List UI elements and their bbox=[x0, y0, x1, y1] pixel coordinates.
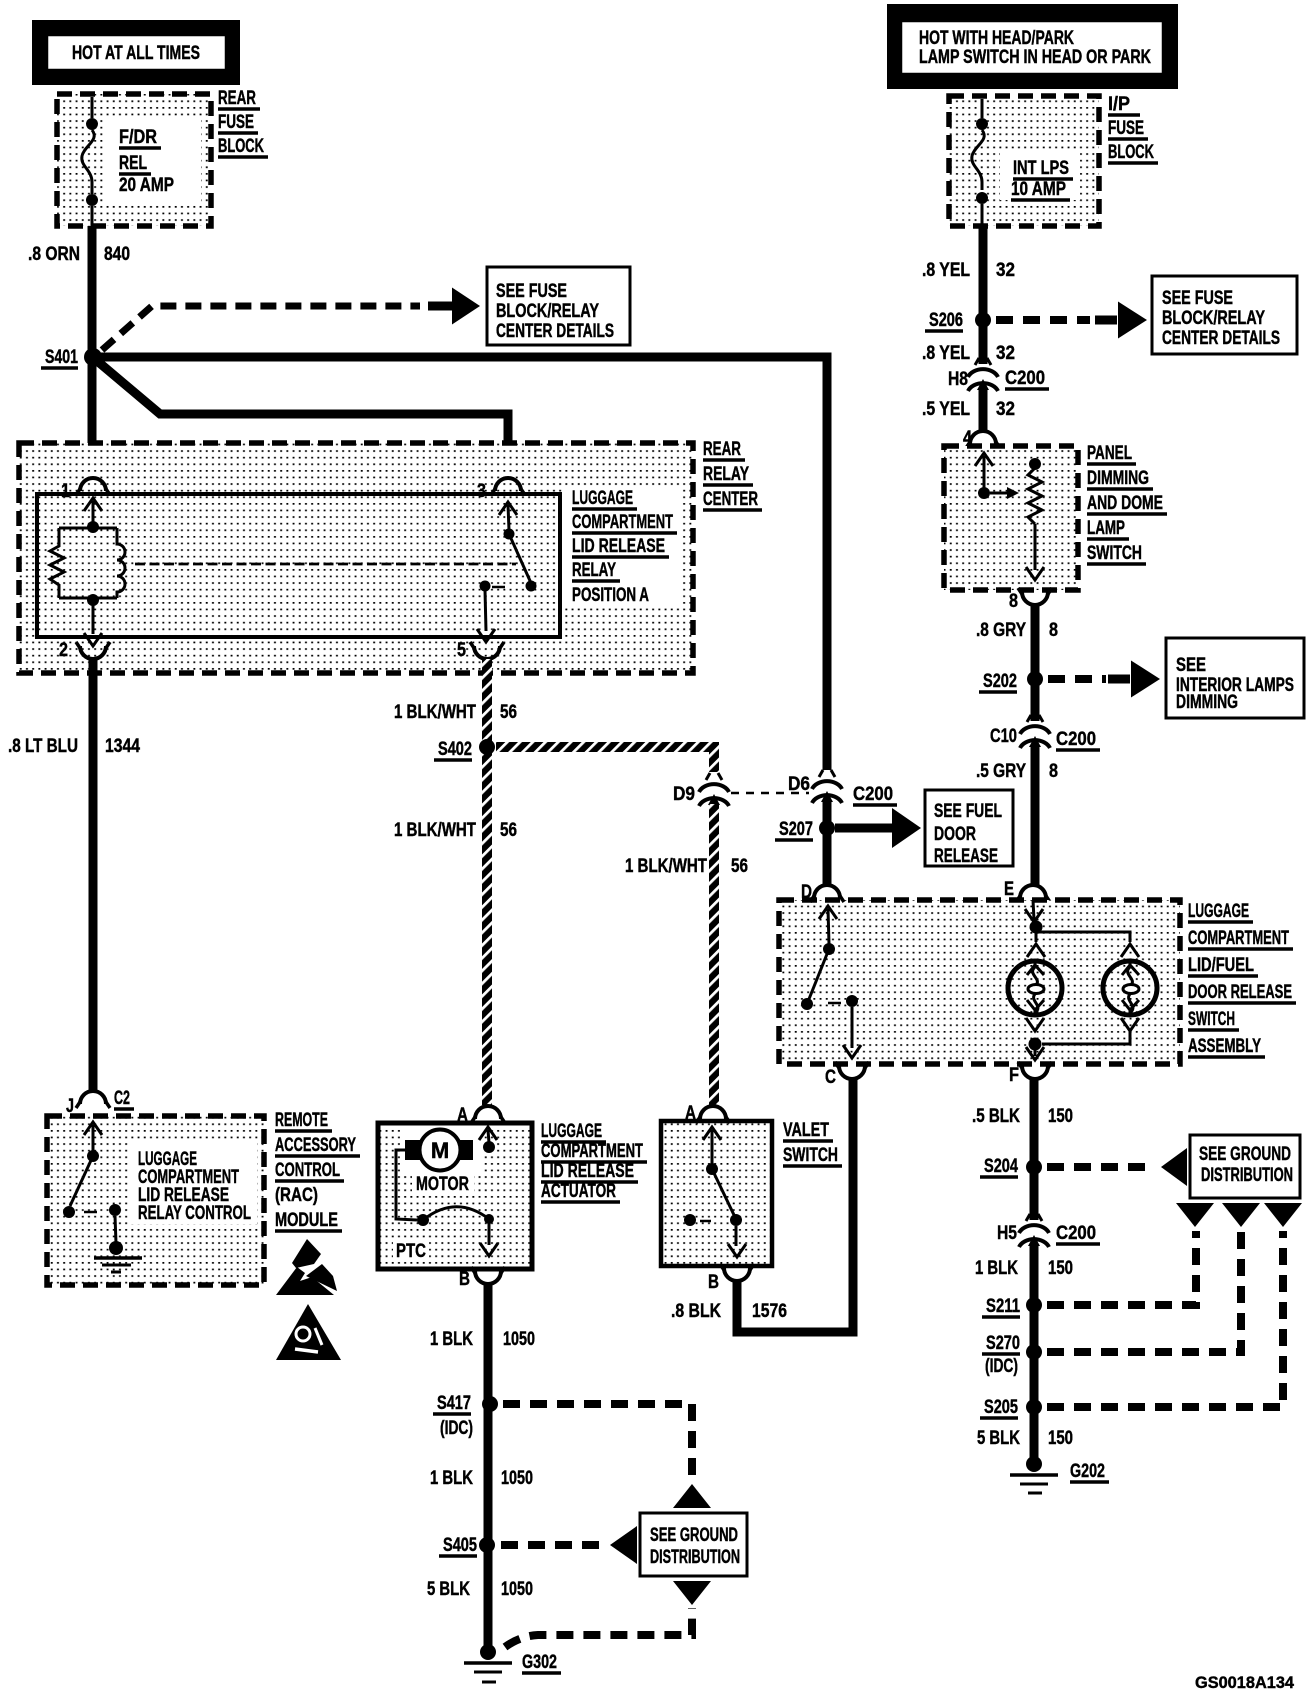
splice S207 label bbox=[775, 819, 813, 840]
arrow down t1 bbox=[1176, 1203, 1214, 1227]
switch assembly box bbox=[779, 900, 1180, 1064]
switch assembly pin E bbox=[1004, 879, 1050, 902]
wire valet B to C .8 BLK 1576 bbox=[737, 1079, 853, 1332]
box SEE INTERIOR LAMPS DIMMING bbox=[1166, 638, 1304, 718]
svg-text:H8: H8 bbox=[948, 369, 968, 390]
svg-text:S401: S401 bbox=[45, 347, 78, 368]
valet switch box bbox=[661, 1121, 772, 1266]
splice S270 label bbox=[982, 1333, 1020, 1377]
splice S402 bbox=[479, 739, 495, 755]
svg-text:SEE: SEE bbox=[1176, 655, 1206, 676]
splice S417 label bbox=[433, 1393, 473, 1439]
label 1 BLK b bbox=[430, 1468, 473, 1489]
wire .8 ORN 840 bbox=[88, 226, 97, 479]
svg-text:150: 150 bbox=[1048, 1106, 1073, 1127]
label 8 b bbox=[1049, 761, 1058, 782]
label 1 BLK right bbox=[975, 1258, 1018, 1279]
svg-text:ACTUATOR: ACTUATOR bbox=[541, 1181, 616, 1202]
wire actuator B to G302 bbox=[484, 1284, 493, 1652]
actuator motor bbox=[400, 1127, 497, 1195]
svg-text:150: 150 bbox=[1048, 1428, 1073, 1449]
label 5 BLK bbox=[427, 1579, 470, 1600]
svg-text:S211: S211 bbox=[986, 1296, 1020, 1317]
svg-text:SEE GROUND: SEE GROUND bbox=[1199, 1144, 1291, 1165]
svg-text:32: 32 bbox=[996, 399, 1015, 420]
label G202 bbox=[1070, 1461, 1109, 1482]
splice S204 label bbox=[980, 1156, 1018, 1177]
splice S202 bbox=[1027, 671, 1043, 687]
label 1 BLK/WHT upper bbox=[394, 702, 476, 723]
relay pin 1 bbox=[61, 478, 110, 502]
svg-text:S417: S417 bbox=[437, 1393, 471, 1414]
svg-text:FUSE: FUSE bbox=[1108, 118, 1144, 139]
svg-text:DIMMING: DIMMING bbox=[1087, 468, 1149, 489]
relay pin 2 bbox=[59, 640, 110, 661]
splice S405 label bbox=[439, 1535, 477, 1556]
connector pin J bbox=[66, 1091, 110, 1117]
rear fuse block box bbox=[57, 94, 211, 226]
svg-text:A: A bbox=[457, 1105, 468, 1126]
label .5 BLK bbox=[972, 1106, 1020, 1127]
svg-text:REAR: REAR bbox=[218, 88, 256, 109]
ground G202 bbox=[1010, 1456, 1058, 1493]
svg-text:C200: C200 bbox=[1005, 368, 1045, 389]
svg-text:.8 YEL: .8 YEL bbox=[922, 343, 970, 364]
arrow down t2 bbox=[1222, 1203, 1260, 1227]
svg-text:1050: 1050 bbox=[501, 1579, 533, 1600]
svg-text:S204: S204 bbox=[984, 1156, 1018, 1177]
svg-text:C: C bbox=[825, 1067, 836, 1088]
connector H5 C200 bbox=[997, 1214, 1100, 1247]
svg-text:INT LPS: INT LPS bbox=[1013, 158, 1069, 179]
svg-text:AND DOME: AND DOME bbox=[1087, 493, 1163, 514]
splice S405 bbox=[479, 1537, 495, 1553]
actuator pin A bbox=[457, 1105, 505, 1126]
lamp return wiring bbox=[1026, 1018, 1139, 1060]
svg-text:ACCESSORY: ACCESSORY bbox=[275, 1135, 356, 1156]
svg-text:COMPARTMENT: COMPARTMENT bbox=[541, 1141, 643, 1162]
I/P fuse block box bbox=[949, 96, 1099, 226]
svg-text:I/P: I/P bbox=[1108, 94, 1130, 115]
svg-text:G302: G302 bbox=[522, 1652, 557, 1673]
svg-text:.8 YEL: .8 YEL bbox=[922, 260, 970, 281]
label .8 YEL lower bbox=[922, 343, 970, 364]
svg-text:LUGGAGE: LUGGAGE bbox=[1188, 901, 1249, 922]
svg-text:LUGGAGE: LUGGAGE bbox=[541, 1121, 602, 1142]
svg-text:.5 YEL: .5 YEL bbox=[922, 399, 970, 420]
connector C10 C200 bbox=[990, 715, 1100, 750]
dashed wire S405 to ground distribution bbox=[501, 1541, 600, 1549]
svg-text:VALET: VALET bbox=[783, 1120, 829, 1141]
power label HOT AT ALL TIMES bbox=[32, 20, 240, 85]
svg-text:5 BLK: 5 BLK bbox=[427, 1579, 470, 1600]
svg-text:G202: G202 bbox=[1070, 1461, 1105, 1482]
splice S207 bbox=[819, 820, 835, 836]
svg-text:FUSE: FUSE bbox=[218, 112, 254, 133]
svg-text:DIMMING: DIMMING bbox=[1176, 692, 1238, 713]
svg-text:1 BLK: 1 BLK bbox=[975, 1258, 1018, 1279]
switch assembly pin F bbox=[1009, 1062, 1052, 1086]
wire .8 GRY 8 bbox=[1031, 605, 1040, 886]
svg-text:BLOCK/RELAY: BLOCK/RELAY bbox=[1162, 308, 1265, 329]
RAC relay control switch bbox=[63, 1122, 123, 1255]
svg-text:REL: REL bbox=[119, 153, 147, 174]
svg-text:LID/FUEL: LID/FUEL bbox=[1188, 955, 1254, 976]
svg-text:LID RELEASE: LID RELEASE bbox=[572, 536, 665, 557]
svg-text:CENTER DETAILS: CENTER DETAILS bbox=[496, 321, 614, 342]
splice S205 label bbox=[980, 1397, 1018, 1418]
svg-text:CONTROL: CONTROL bbox=[275, 1160, 340, 1181]
svg-text:10 AMP: 10 AMP bbox=[1011, 179, 1066, 200]
box SEE GROUND DISTRIBUTION right bbox=[1190, 1135, 1300, 1198]
svg-text:C200: C200 bbox=[853, 784, 893, 805]
box SEE FUSE BLOCK/RELAY CENTER DETAILS right bbox=[1152, 276, 1297, 354]
svg-text:RELAY: RELAY bbox=[572, 560, 616, 581]
figure number GS0018A134 bbox=[1195, 1673, 1295, 1692]
wire D9 to valet switch A bbox=[709, 804, 719, 1105]
label C2 bbox=[114, 1088, 134, 1109]
label LUGGAGE COMPARTMENT LID/FUEL DOOR RELEASE SWITCH ASSEMBLY bbox=[1188, 901, 1296, 1057]
svg-text:MOTOR: MOTOR bbox=[416, 1174, 469, 1195]
panel dimming box bbox=[944, 446, 1078, 590]
svg-text:(RAC): (RAC) bbox=[275, 1185, 318, 1206]
relay pin 3 bbox=[477, 478, 525, 502]
relay inner box bbox=[37, 494, 560, 637]
svg-text:1 BLK: 1 BLK bbox=[430, 1329, 473, 1350]
svg-text:1 BLK/WHT: 1 BLK/WHT bbox=[394, 820, 476, 841]
label .8 BLK bbox=[671, 1301, 721, 1322]
box SEE GROUND DISTRIBUTION middle bbox=[640, 1513, 747, 1576]
label LUGGAGE COMPARTMENT LID RELEASE RELAY CONTROL bbox=[138, 1149, 251, 1224]
switch assembly pin D bbox=[801, 882, 844, 903]
label 8 a bbox=[1049, 620, 1058, 641]
wire S401 to relay pin 3 bbox=[96, 360, 508, 477]
splice S206 bbox=[975, 312, 991, 328]
svg-text:MODULE: MODULE bbox=[275, 1210, 338, 1231]
relay switch contacts bbox=[477, 502, 537, 642]
svg-text:1576: 1576 bbox=[752, 1301, 787, 1322]
svg-text:S270: S270 bbox=[986, 1333, 1020, 1354]
svg-text:CENTER DETAILS: CENTER DETAILS bbox=[1162, 328, 1280, 349]
dashed wire S204 bbox=[1047, 1163, 1150, 1171]
dashed wire S205 bbox=[1047, 1231, 1283, 1407]
label LUGGAGE COMPARTMENT LID RELEASE RELAY POSITION A bbox=[572, 488, 677, 606]
svg-text:RELAY: RELAY bbox=[703, 464, 749, 485]
dashed wire S270 bbox=[1047, 1231, 1241, 1352]
label G302 bbox=[522, 1652, 561, 1673]
svg-text:C10: C10 bbox=[990, 726, 1017, 747]
RAC internal ground bbox=[94, 1258, 142, 1272]
svg-text:SEE GROUND: SEE GROUND bbox=[650, 1525, 738, 1546]
svg-text:POSITION A: POSITION A bbox=[572, 585, 649, 606]
label 150 a bbox=[1048, 1106, 1073, 1127]
svg-text:S206: S206 bbox=[929, 310, 963, 331]
actuator box bbox=[378, 1123, 532, 1269]
lamp 2 bbox=[1103, 961, 1157, 1015]
svg-text:SWITCH: SWITCH bbox=[783, 1145, 838, 1166]
svg-text:1050: 1050 bbox=[501, 1468, 533, 1489]
fuse F/DR REL 20 AMP bbox=[82, 97, 174, 226]
svg-text:8: 8 bbox=[1009, 591, 1018, 612]
svg-text:840: 840 bbox=[104, 244, 130, 265]
svg-text:2: 2 bbox=[59, 640, 68, 661]
svg-text:.8 ORN: .8 ORN bbox=[28, 244, 80, 265]
label 1050 b bbox=[501, 1468, 533, 1489]
svg-text:SEE FUSE: SEE FUSE bbox=[1162, 288, 1233, 309]
connector H8 C200 bbox=[948, 358, 1049, 391]
splice S202 label bbox=[979, 671, 1017, 692]
svg-text:S405: S405 bbox=[443, 1535, 477, 1556]
panel switch pin 4 bbox=[963, 428, 1000, 449]
arrow to fuse block details bbox=[452, 288, 480, 325]
lamp 1 bbox=[1008, 961, 1062, 1015]
connector D9 bbox=[673, 773, 729, 806]
svg-text:C200: C200 bbox=[1056, 729, 1096, 750]
svg-text:BLOCK/RELAY: BLOCK/RELAY bbox=[496, 301, 599, 322]
svg-text:M: M bbox=[431, 1138, 449, 1163]
svg-text:LUGGAGE: LUGGAGE bbox=[572, 488, 633, 509]
svg-text:CENTER: CENTER bbox=[703, 489, 758, 510]
svg-text:D6: D6 bbox=[788, 774, 810, 795]
svg-text:3: 3 bbox=[477, 481, 486, 502]
label 1576 bbox=[752, 1301, 787, 1322]
label I/P FUSE BLOCK bbox=[1108, 94, 1158, 163]
wire S401 to D6 bbox=[97, 357, 827, 770]
svg-text:1: 1 bbox=[61, 481, 70, 502]
label 1 BLK a bbox=[430, 1329, 473, 1350]
box SEE FUEL DOOR RELEASE bbox=[925, 790, 1013, 867]
svg-text:D9: D9 bbox=[673, 784, 695, 805]
ESD handling symbol bbox=[276, 1304, 341, 1360]
svg-text:S205: S205 bbox=[984, 1397, 1018, 1418]
svg-text:5: 5 bbox=[457, 640, 466, 661]
svg-text:S402: S402 bbox=[438, 739, 472, 760]
dashed wire to fuse block details bbox=[102, 306, 453, 350]
dashed line D9 to D6 bbox=[731, 792, 809, 795]
label .8 YEL upper bbox=[922, 260, 970, 281]
svg-text:REAR: REAR bbox=[703, 439, 741, 460]
svg-text:GS0018A134: GS0018A134 bbox=[1195, 1673, 1295, 1692]
label .5 YEL bbox=[922, 399, 970, 420]
svg-text:1344: 1344 bbox=[105, 736, 140, 757]
svg-text:COMPARTMENT: COMPARTMENT bbox=[572, 512, 673, 533]
lamp feed wiring bbox=[1025, 900, 1139, 957]
svg-text:56: 56 bbox=[500, 702, 517, 723]
svg-text:LID RELEASE: LID RELEASE bbox=[541, 1161, 634, 1182]
label 56 upper bbox=[500, 702, 517, 723]
svg-text:(IDC): (IDC) bbox=[440, 1418, 473, 1439]
dashed arrow S206 bbox=[996, 316, 1117, 324]
splice S270 bbox=[1026, 1344, 1042, 1360]
svg-text:32: 32 bbox=[996, 343, 1015, 364]
svg-text:DISTRIBUTION: DISTRIBUTION bbox=[650, 1547, 740, 1568]
label 5 BLK right bbox=[977, 1428, 1020, 1449]
valet pin B bbox=[708, 1264, 754, 1293]
svg-text:1 BLK/WHT: 1 BLK/WHT bbox=[625, 856, 707, 877]
relay coil bbox=[50, 498, 125, 646]
label 840 bbox=[104, 244, 130, 265]
label 150 c bbox=[1048, 1428, 1073, 1449]
ESD sensitivity symbol bbox=[276, 1239, 337, 1295]
svg-text:C200: C200 bbox=[1056, 1223, 1096, 1244]
svg-text:8: 8 bbox=[1049, 761, 1058, 782]
svg-text:F/DR: F/DR bbox=[119, 127, 157, 148]
dashed wire S417 to ground distribution bbox=[503, 1404, 692, 1478]
svg-text:SWITCH: SWITCH bbox=[1087, 543, 1142, 564]
valet pin A bbox=[685, 1103, 730, 1124]
svg-text:1 BLK: 1 BLK bbox=[430, 1468, 473, 1489]
wire .8 YEL 32 upper bbox=[979, 226, 988, 431]
fuse INT LPS 10 AMP bbox=[972, 99, 1073, 226]
arrow down t3 bbox=[1264, 1203, 1302, 1227]
valet switch contacts bbox=[684, 1127, 746, 1257]
svg-text:B: B bbox=[459, 1269, 470, 1290]
svg-text:PANEL: PANEL bbox=[1087, 443, 1132, 464]
svg-text:F: F bbox=[1009, 1065, 1019, 1086]
arrow left at S204 bbox=[1161, 1148, 1187, 1186]
svg-text:1050: 1050 bbox=[503, 1329, 535, 1350]
svg-text:RELEASE: RELEASE bbox=[934, 846, 998, 867]
wire .8 LT BLU 1344 bbox=[89, 659, 98, 1092]
label REAR FUSE BLOCK bbox=[218, 88, 268, 157]
svg-text:8: 8 bbox=[1049, 620, 1058, 641]
label 1344 bbox=[105, 736, 140, 757]
wire 1 BLK/WHT pin5 to actuator bbox=[482, 659, 492, 1105]
rear relay center box bbox=[19, 443, 693, 673]
label 150 b bbox=[1048, 1258, 1073, 1279]
svg-text:ASSEMBLY: ASSEMBLY bbox=[1188, 1036, 1261, 1057]
arrow left at S405 bbox=[610, 1526, 637, 1564]
connector D6 bbox=[788, 770, 842, 803]
arrow down below ground distribution box bbox=[673, 1581, 711, 1605]
label 32 upper a bbox=[996, 260, 1015, 281]
svg-text:BLOCK: BLOCK bbox=[218, 136, 264, 157]
arrow up to ground distribution box bbox=[673, 1484, 711, 1508]
label LUGGAGE COMPARTMENT LID RELEASE ACTUATOR bbox=[541, 1121, 647, 1202]
relay actuation dash-dot link bbox=[135, 563, 516, 566]
wire D6 to switch assembly D bbox=[823, 801, 832, 885]
svg-text:SEE FUSE: SEE FUSE bbox=[496, 281, 567, 302]
svg-text:56: 56 bbox=[731, 856, 748, 877]
svg-text:A: A bbox=[685, 1103, 696, 1124]
svg-text:SWITCH: SWITCH bbox=[1188, 1009, 1235, 1030]
svg-text:20 AMP: 20 AMP bbox=[119, 175, 174, 196]
splice S401 bbox=[84, 348, 102, 366]
arrowhead S202 bbox=[1131, 661, 1160, 698]
label 1050 c bbox=[501, 1579, 533, 1600]
dashed arrow S202 bbox=[1048, 675, 1130, 683]
label C200 at D6 bbox=[853, 784, 897, 805]
box SEE FUSE BLOCK/RELAY CENTER DETAILS bbox=[487, 267, 630, 345]
switch assembly lid release contacts bbox=[801, 906, 861, 1058]
svg-text:150: 150 bbox=[1048, 1258, 1073, 1279]
switch assembly pin C bbox=[825, 1062, 869, 1088]
actuator pin B bbox=[459, 1267, 505, 1290]
svg-text:56: 56 bbox=[500, 820, 517, 841]
splice S402 label bbox=[434, 739, 472, 760]
label .8 GRY bbox=[976, 620, 1026, 641]
panel switch pin 8 bbox=[1009, 588, 1052, 612]
label REAR RELAY CENTER bbox=[703, 439, 762, 510]
label 32 c bbox=[996, 399, 1015, 420]
svg-text:RELAY CONTROL: RELAY CONTROL bbox=[138, 1203, 251, 1224]
label 1 BLK/WHT valet bbox=[625, 856, 707, 877]
svg-text:D: D bbox=[801, 882, 812, 903]
svg-text:H5: H5 bbox=[997, 1223, 1017, 1244]
svg-text:.8 GRY: .8 GRY bbox=[976, 620, 1026, 641]
svg-text:.8 LT BLU: .8 LT BLU bbox=[8, 736, 78, 757]
svg-text:B: B bbox=[708, 1272, 719, 1293]
panel dimming rheostat bbox=[975, 453, 1044, 580]
ground G302 bbox=[464, 1644, 512, 1682]
svg-text:HOT WITH HEAD/PARK: HOT WITH HEAD/PARK bbox=[919, 28, 1074, 49]
label 32 b bbox=[996, 343, 1015, 364]
label 56 lower bbox=[500, 820, 517, 841]
actuator PTC element bbox=[393, 1150, 498, 1262]
svg-text:COMPARTMENT: COMPARTMENT bbox=[1188, 928, 1289, 949]
svg-text:BLOCK: BLOCK bbox=[1108, 142, 1154, 163]
label PANEL DIMMING AND DOME LAMP SWITCH bbox=[1087, 443, 1167, 564]
label VALET SWITCH bbox=[783, 1120, 842, 1166]
svg-text:SEE FUEL: SEE FUEL bbox=[934, 801, 1002, 822]
arrowhead S206 bbox=[1118, 302, 1147, 339]
dashed wire G302 to ground distribution bbox=[505, 1608, 692, 1647]
svg-text:.5 GRY: .5 GRY bbox=[976, 761, 1026, 782]
svg-text:DOOR RELEASE: DOOR RELEASE bbox=[1188, 982, 1292, 1003]
label .8 ORN bbox=[28, 244, 80, 265]
svg-text:HOT AT ALL TIMES: HOT AT ALL TIMES bbox=[72, 43, 200, 64]
splice S204 bbox=[1026, 1159, 1042, 1175]
svg-text:LAMP SWITCH IN HEAD OR PARK: LAMP SWITCH IN HEAD OR PARK bbox=[919, 47, 1151, 68]
svg-text:LAMP: LAMP bbox=[1087, 518, 1125, 539]
label REMOTE ACCESSORY CONTROL (RAC) MODULE bbox=[275, 1110, 360, 1231]
svg-text:E: E bbox=[1004, 879, 1014, 900]
splice S417 bbox=[482, 1396, 498, 1412]
relay pin 5 bbox=[457, 640, 504, 661]
svg-text:DISTRIBUTION: DISTRIBUTION bbox=[1201, 1165, 1293, 1186]
svg-text:(IDC): (IDC) bbox=[985, 1356, 1018, 1377]
splice S211 label bbox=[982, 1296, 1020, 1317]
label 1 BLK/WHT lower bbox=[394, 820, 476, 841]
svg-text:PTC: PTC bbox=[396, 1241, 426, 1262]
wire F to G202 bbox=[1030, 1079, 1039, 1462]
svg-text:S202: S202 bbox=[983, 671, 1017, 692]
svg-text:REMOTE: REMOTE bbox=[275, 1110, 328, 1131]
dashed wire S211 bbox=[1047, 1231, 1196, 1305]
label 56 valet bbox=[731, 856, 748, 877]
svg-text:.8 BLK: .8 BLK bbox=[671, 1301, 721, 1322]
label .5 GRY bbox=[976, 761, 1026, 782]
arrow to fuel door release bbox=[835, 808, 921, 848]
svg-text:.5 BLK: .5 BLK bbox=[972, 1106, 1020, 1127]
RAC module box bbox=[47, 1116, 264, 1285]
svg-text:1 BLK/WHT: 1 BLK/WHT bbox=[394, 702, 476, 723]
wire S402 to D9 bbox=[496, 747, 714, 772]
splice S401 label bbox=[41, 347, 78, 368]
splice S206 label bbox=[925, 310, 963, 331]
label 1050 a bbox=[503, 1329, 535, 1350]
label .8 LT BLU bbox=[8, 736, 78, 757]
svg-text:32: 32 bbox=[996, 260, 1015, 281]
splice S205 bbox=[1026, 1399, 1042, 1415]
svg-text:5 BLK: 5 BLK bbox=[977, 1428, 1020, 1449]
splice S211 bbox=[1026, 1297, 1042, 1313]
svg-text:S207: S207 bbox=[779, 819, 813, 840]
svg-text:DOOR: DOOR bbox=[934, 824, 976, 845]
power label HOT WITH HEAD/PARK LAMP SWITCH bbox=[887, 4, 1178, 89]
svg-text:C2: C2 bbox=[114, 1088, 130, 1109]
